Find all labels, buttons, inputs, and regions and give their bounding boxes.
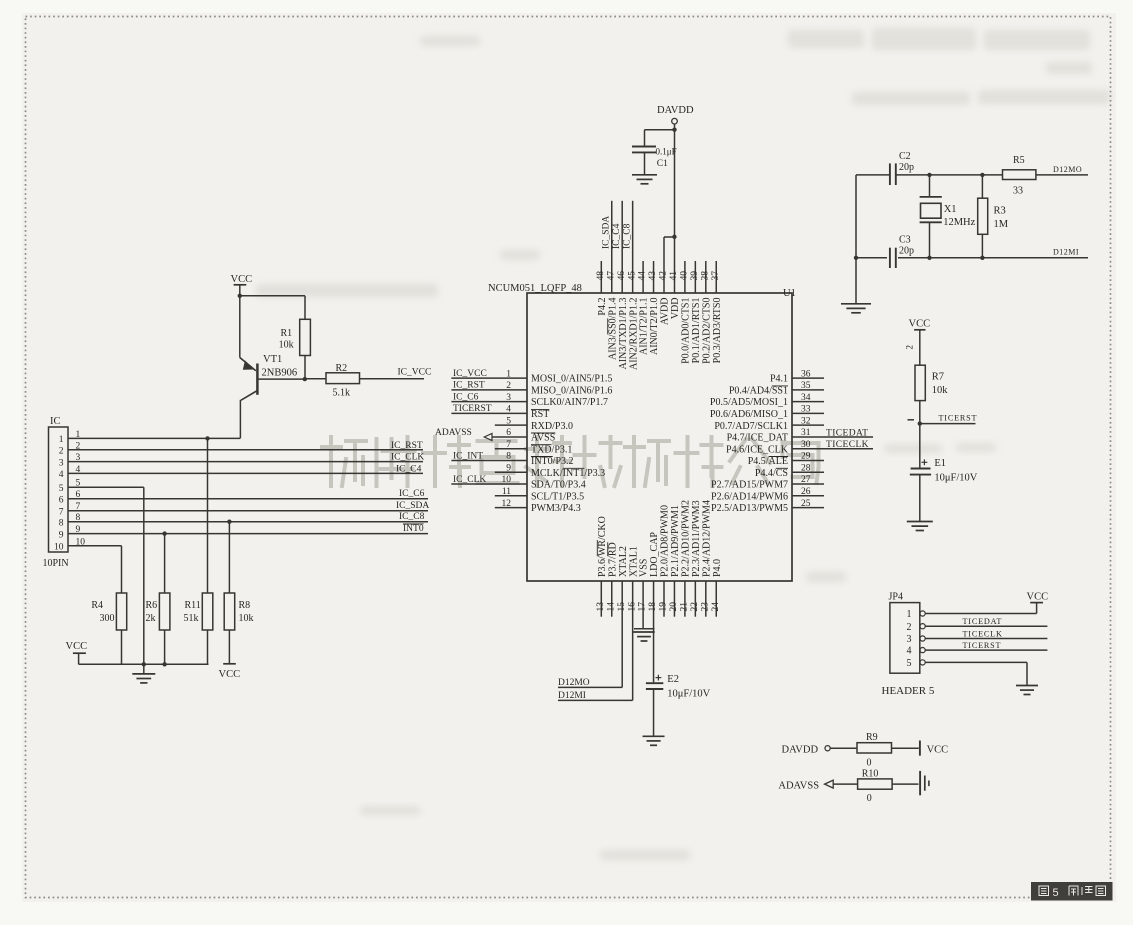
svg-text:TICECLK: TICECLK bbox=[826, 440, 869, 450]
svg-text:E1: E1 bbox=[934, 458, 946, 469]
power flag VCC (R4) bbox=[78, 653, 80, 664]
svg-text:AIN2/RXD1/P1.2: AIN2/RXD1/P1.2 bbox=[628, 298, 639, 371]
svg-text:10k: 10k bbox=[932, 385, 949, 396]
svg-text:P2.7/AD15/PWM7: P2.7/AD15/PWM7 bbox=[711, 480, 788, 491]
svg-text:51k: 51k bbox=[184, 613, 199, 624]
svg-text:AIN3/SS0/P1.4: AIN3/SS0/P1.4 bbox=[607, 298, 618, 361]
svg-text:29: 29 bbox=[801, 452, 811, 462]
svg-text:ADAVSS: ADAVSS bbox=[435, 428, 472, 438]
ground (R10, sideways) bbox=[919, 771, 921, 795]
svg-text:ADAVSS: ADAVSS bbox=[778, 781, 819, 792]
svg-text:5: 5 bbox=[59, 484, 64, 494]
svg-text:VCC: VCC bbox=[927, 745, 949, 756]
svg-text:18: 18 bbox=[648, 602, 658, 612]
svg-text:7: 7 bbox=[506, 440, 511, 450]
wire R4 to rail bbox=[121, 630, 123, 664]
svg-text:3: 3 bbox=[59, 458, 64, 468]
svg-text:RXD/P3.0: RXD/P3.0 bbox=[531, 421, 573, 432]
IC U1 pin 17 bbox=[642, 581, 644, 629]
svg-text:X1: X1 bbox=[944, 204, 957, 215]
svg-text:INT0/P3.2: INT0/P3.2 bbox=[531, 456, 574, 467]
IC U1 pin 7 (TXD) bbox=[495, 448, 527, 450]
svg-text:11: 11 bbox=[502, 487, 511, 497]
capacitor E2 bbox=[656, 677, 662, 679]
resistor R9 bbox=[857, 743, 892, 753]
resistor R7 bbox=[915, 365, 925, 400]
svg-text:P4.2: P4.2 bbox=[597, 298, 608, 316]
svg-text:20p: 20p bbox=[899, 246, 914, 257]
svg-text:IC_VCC: IC_VCC bbox=[453, 369, 487, 379]
svg-text:33: 33 bbox=[1013, 186, 1023, 197]
IC U1 pin 5 (RXD) bbox=[495, 424, 527, 426]
IC U1 pin 19 bbox=[663, 581, 665, 617]
wire connector pin 5 to ground rail bbox=[68, 486, 144, 488]
svg-text:IC_C8: IC_C8 bbox=[622, 223, 632, 249]
svg-text:9: 9 bbox=[506, 463, 511, 473]
svg-text:6: 6 bbox=[59, 496, 64, 506]
svg-text:TICERST: TICERST bbox=[963, 641, 1002, 650]
wire net IC_CLK (connector pin 3) bbox=[68, 461, 423, 463]
svg-text:U1: U1 bbox=[783, 288, 796, 299]
svg-text:VCC: VCC bbox=[219, 669, 241, 680]
connector IC (10PIN) bbox=[49, 427, 69, 552]
wire ADAVSS to R10 bbox=[833, 783, 857, 785]
svg-text:NCUM051_LQFP_48: NCUM051_LQFP_48 bbox=[488, 283, 582, 294]
wire node to E1 bbox=[919, 424, 921, 469]
svg-text:TICERST: TICERST bbox=[939, 414, 978, 423]
svg-text:44: 44 bbox=[638, 271, 648, 281]
svg-text:R1: R1 bbox=[281, 328, 293, 339]
svg-text:0: 0 bbox=[867, 793, 872, 804]
svg-text:R6: R6 bbox=[146, 600, 158, 611]
IC U1 pin 45 bbox=[632, 201, 634, 293]
svg-text:VCC: VCC bbox=[1027, 592, 1049, 603]
svg-text:0: 0 bbox=[867, 758, 872, 769]
svg-text:TICEDAT: TICEDAT bbox=[826, 428, 868, 438]
svg-text:10μF/10V: 10μF/10V bbox=[667, 689, 710, 700]
svg-text:9: 9 bbox=[59, 530, 64, 540]
svg-text:2: 2 bbox=[905, 345, 915, 350]
svg-text:15: 15 bbox=[617, 602, 627, 612]
svg-text:AIN3/TXD1/P1.3: AIN3/TXD1/P1.3 bbox=[618, 298, 629, 370]
svg-text:23: 23 bbox=[700, 602, 710, 612]
svg-text:17: 17 bbox=[638, 602, 648, 612]
svg-text:12: 12 bbox=[502, 499, 512, 509]
svg-text:38: 38 bbox=[700, 271, 710, 281]
IC U1 pin 20 bbox=[673, 581, 675, 617]
IC U1 pin 40 bbox=[684, 261, 686, 293]
svg-text:P4.4/CS: P4.4/CS bbox=[755, 468, 788, 479]
resistor R3 bbox=[981, 175, 983, 198]
svg-text:33: 33 bbox=[801, 405, 811, 415]
svg-text:R9: R9 bbox=[866, 732, 878, 743]
svg-text:P2.3/AD11/PWM3: P2.3/AD11/PWM3 bbox=[691, 500, 702, 577]
svg-text:P4.1: P4.1 bbox=[770, 374, 788, 385]
svg-text:16: 16 bbox=[627, 602, 637, 612]
svg-text:LDO_CAP: LDO_CAP bbox=[649, 532, 660, 577]
svg-text:4: 4 bbox=[506, 405, 511, 415]
svg-text:P3.6/WR/CKO: P3.6/WR/CKO bbox=[597, 516, 608, 577]
svg-text:37: 37 bbox=[711, 271, 721, 281]
IC U1 pin 2 (MISO_0) bbox=[451, 389, 527, 391]
svg-text:4: 4 bbox=[59, 470, 64, 480]
svg-text:46: 46 bbox=[617, 271, 627, 281]
svg-text:IC_C8: IC_C8 bbox=[399, 512, 425, 522]
ground (E1) bbox=[907, 521, 933, 523]
svg-text:13: 13 bbox=[596, 602, 606, 612]
wire DAVDD to node bbox=[674, 124, 676, 130]
svg-text:IC_SDA: IC_SDA bbox=[601, 216, 611, 249]
svg-text:P2.6/AD14/PWM6: P2.6/AD14/PWM6 bbox=[711, 491, 788, 502]
svg-text:34: 34 bbox=[801, 393, 811, 403]
power flag VCC (R8) bbox=[223, 663, 236, 665]
IC U1 pin 8 (INT0) bbox=[451, 459, 527, 461]
svg-text:VSS: VSS bbox=[639, 559, 650, 577]
svg-text:43: 43 bbox=[648, 271, 658, 281]
resistor R11 bbox=[207, 438, 209, 593]
svg-text:IC_VCC: IC_VCC bbox=[398, 368, 432, 378]
crystal X1 bbox=[929, 175, 931, 197]
svg-text:10PIN: 10PIN bbox=[43, 558, 69, 569]
resistor R1 bbox=[300, 319, 311, 355]
svg-text:47: 47 bbox=[606, 271, 616, 281]
IC U1 pin 11 (SCL) bbox=[495, 495, 527, 497]
svg-text:P0.2/AD2/CTS0: P0.2/AD2/CTS0 bbox=[701, 298, 712, 364]
svg-text:R7: R7 bbox=[932, 372, 944, 383]
power flag VCC (JP4) bbox=[1030, 602, 1043, 604]
svg-text:6: 6 bbox=[506, 428, 511, 438]
wire bottom (crystal) to D12MI bbox=[856, 257, 1088, 259]
IC U1 pin 1 (MOSI_0) bbox=[451, 377, 527, 379]
IC U1 pin 37 bbox=[715, 261, 717, 293]
wire net IC_RST (connector pin 2) bbox=[68, 449, 423, 451]
wire C2 to R5 bbox=[896, 174, 1003, 176]
svg-text:41: 41 bbox=[669, 271, 679, 281]
svg-text:AIN0/T2/P1.0: AIN0/T2/P1.0 bbox=[649, 298, 660, 356]
IC U1 pin 35 bbox=[792, 389, 824, 391]
svg-text:P2.0/AD8/PWM0: P2.0/AD8/PWM0 bbox=[660, 505, 671, 577]
wire R1 to base node bbox=[304, 356, 306, 380]
IC U1 pin 30 bbox=[792, 448, 873, 450]
svg-text:TICECLK: TICECLK bbox=[963, 630, 1003, 639]
wire net TICECLK (JP4 pin 3) bbox=[925, 638, 1047, 640]
svg-text:AVSS: AVSS bbox=[531, 433, 555, 444]
wire E2 to ground bbox=[653, 689, 655, 736]
svg-text:SCL/T1/P3.5: SCL/T1/P3.5 bbox=[531, 491, 584, 502]
IC U1 NCUM051_LQFP_48 bbox=[527, 293, 792, 581]
svg-text:XTAL1: XTAL1 bbox=[628, 546, 639, 577]
svg-text:8: 8 bbox=[506, 452, 511, 462]
svg-text:3: 3 bbox=[907, 634, 912, 645]
svg-text:P3.7/RD: P3.7/RD bbox=[607, 542, 618, 577]
resistor R5 bbox=[1003, 170, 1036, 180]
svg-text:SDA/T0/P3.4: SDA/T0/P3.4 bbox=[531, 480, 586, 491]
svg-text:TICEDAT: TICEDAT bbox=[963, 617, 1003, 626]
wire C1 to ground bbox=[644, 152, 646, 174]
svg-text:P0.0/AD0/CTS1: P0.0/AD0/CTS1 bbox=[681, 298, 692, 364]
ground (crystal rail) bbox=[841, 303, 871, 305]
svg-text:IC_CLK: IC_CLK bbox=[391, 453, 424, 463]
pin number 2 (R7) bbox=[905, 345, 915, 350]
svg-text:45: 45 bbox=[627, 271, 637, 281]
svg-text:AVDD: AVDD bbox=[660, 298, 671, 326]
svg-text:P0.7/AD7/SCLK1: P0.7/AD7/SCLK1 bbox=[714, 421, 788, 432]
capacitor C1 bbox=[632, 146, 656, 148]
svg-text:19: 19 bbox=[659, 602, 669, 612]
svg-text:14: 14 bbox=[606, 602, 616, 612]
IC U1 pin 16 bbox=[632, 581, 634, 700]
IC U1 pin 6 (AVSS) bbox=[492, 436, 527, 438]
wire JP4 pin 5 to ground bbox=[925, 661, 1027, 663]
svg-text:R5: R5 bbox=[1013, 155, 1025, 166]
wire connector pin 10 to R4 bbox=[68, 545, 122, 547]
wire E1 to ground bbox=[919, 475, 921, 522]
svg-text:P2.4/AD12/PWM4: P2.4/AD12/PWM4 bbox=[701, 500, 712, 577]
IC U1 pin 38 bbox=[705, 261, 707, 293]
svg-text:26: 26 bbox=[801, 487, 811, 497]
ground (C1) bbox=[632, 174, 657, 176]
svg-text:5.1k: 5.1k bbox=[333, 388, 351, 399]
IC U1 pin 36 bbox=[792, 377, 824, 379]
svg-text:MOSI_0/AIN5/P1.5: MOSI_0/AIN5/P1.5 bbox=[531, 374, 612, 385]
transistor VT1 bbox=[239, 296, 241, 358]
svg-text:3: 3 bbox=[506, 393, 511, 403]
IC U1 pin 26 bbox=[792, 495, 824, 497]
svg-text:22: 22 bbox=[690, 602, 700, 612]
wire R5 to D12MO bbox=[1036, 174, 1088, 176]
IC U1 pin 18 bbox=[653, 581, 655, 682]
IC U1 pin 23 bbox=[705, 581, 707, 617]
wire R2 to IC_VCC bbox=[360, 378, 425, 380]
ground rail (bottom left) bbox=[79, 663, 209, 665]
svg-text:P2.5/AD13/PWM5: P2.5/AD13/PWM5 bbox=[711, 503, 788, 514]
svg-text:IC_RST: IC_RST bbox=[453, 381, 485, 391]
svg-text:C1: C1 bbox=[657, 159, 668, 169]
svg-text:R4: R4 bbox=[91, 600, 103, 611]
svg-text:8: 8 bbox=[59, 519, 64, 529]
IC U1 pin 42 bbox=[663, 237, 665, 293]
svg-text:4: 4 bbox=[907, 646, 912, 657]
svg-text:1M: 1M bbox=[994, 219, 1009, 230]
svg-text:24: 24 bbox=[711, 602, 721, 612]
svg-text:2: 2 bbox=[506, 381, 511, 391]
svg-text:P2.1/AD9/PWM1: P2.1/AD9/PWM1 bbox=[670, 505, 681, 577]
svg-text:300: 300 bbox=[100, 613, 115, 624]
svg-text:PWM3/P4.3: PWM3/P4.3 bbox=[531, 503, 581, 514]
svg-text:2NB906: 2NB906 bbox=[262, 368, 298, 379]
capacitor C3 bbox=[887, 247, 898, 268]
power flag VCC (R9) bbox=[919, 741, 921, 756]
wire R9 to VCC bbox=[892, 747, 919, 749]
svg-text:MCLK/INT1/P3.3: MCLK/INT1/P3.3 bbox=[531, 468, 605, 479]
wire net IC_SDA (connector pin 7) bbox=[68, 510, 428, 512]
svg-text:32: 32 bbox=[801, 416, 811, 426]
IC U1 pin 33 bbox=[792, 412, 824, 414]
svg-text:1: 1 bbox=[506, 369, 511, 379]
svg-text:INT0: INT0 bbox=[403, 524, 424, 534]
resistor R10 bbox=[858, 779, 893, 789]
net label IC_C4 (pin 46) bbox=[612, 223, 622, 249]
IC U1 pin 12 (PWM3) bbox=[495, 507, 527, 509]
wire net ADAVSS (connector pin 1) bbox=[68, 437, 240, 439]
ground (E2) bbox=[643, 735, 665, 737]
wire net IC_C4 (connector pin 4) bbox=[68, 472, 423, 474]
svg-text:IC_C6: IC_C6 bbox=[399, 489, 425, 499]
svg-text:21: 21 bbox=[680, 602, 690, 612]
svg-text:1: 1 bbox=[59, 435, 64, 445]
svg-text:MISO_0/AIN6/P1.6: MISO_0/AIN6/P1.6 bbox=[531, 385, 612, 396]
wire R7 to node TICERST bbox=[919, 401, 921, 424]
svg-text:P0.3/AD3/RTS0: P0.3/AD3/RTS0 bbox=[712, 298, 723, 364]
wire node to C1 bbox=[645, 129, 675, 131]
net label IC_SDA (pin 47) bbox=[601, 216, 611, 249]
ground (bottom left) bbox=[143, 664, 145, 673]
svg-text:P4.6/ICE_CLK: P4.6/ICE_CLK bbox=[726, 444, 789, 455]
svg-text:R8: R8 bbox=[239, 600, 251, 611]
wire rail to C2 bbox=[856, 174, 889, 176]
resistor R6 bbox=[164, 534, 166, 593]
IC U1 pin 27 bbox=[792, 483, 824, 485]
wire net TICEDAT (JP4 pin 2) bbox=[925, 625, 1047, 627]
svg-text:10: 10 bbox=[502, 475, 512, 485]
svg-text:10k: 10k bbox=[239, 613, 254, 624]
IC U1 pin 31 bbox=[792, 436, 873, 438]
svg-text:IC_C4: IC_C4 bbox=[612, 223, 622, 249]
svg-text:35: 35 bbox=[801, 381, 811, 391]
svg-text:48: 48 bbox=[596, 271, 606, 281]
svg-text:R10: R10 bbox=[862, 769, 879, 780]
svg-text:C2: C2 bbox=[899, 151, 911, 162]
svg-text:7: 7 bbox=[59, 508, 64, 518]
svg-text:2: 2 bbox=[59, 447, 64, 457]
svg-text:P0.4/AD4/SS1: P0.4/AD4/SS1 bbox=[729, 385, 788, 396]
svg-text:P0.5/AD5/MOSI_1: P0.5/AD5/MOSI_1 bbox=[710, 397, 788, 408]
IC U1 pin 43 bbox=[653, 261, 655, 293]
wire VCC to R1 bbox=[240, 295, 305, 297]
wire net IC_C6 (connector pin 6) bbox=[68, 498, 428, 500]
svg-text:20: 20 bbox=[669, 602, 679, 612]
svg-text:1: 1 bbox=[907, 609, 912, 620]
IC U1 pin 28 bbox=[792, 471, 824, 473]
net label IC_C8 (pin 45) bbox=[622, 223, 632, 249]
ground (JP4) bbox=[1016, 685, 1038, 687]
svg-text:20p: 20p bbox=[899, 162, 914, 173]
IC U1 pin 9 (MCLK) bbox=[495, 471, 527, 473]
svg-text:XTAL2: XTAL2 bbox=[618, 546, 629, 577]
IC U1 pin 39 bbox=[694, 261, 696, 293]
svg-text:28: 28 bbox=[801, 463, 811, 473]
svg-text:IC_INT: IC_INT bbox=[453, 451, 483, 461]
svg-text:VCC: VCC bbox=[66, 641, 88, 652]
svg-text:10k: 10k bbox=[279, 340, 294, 351]
svg-text:TXD/P3.1: TXD/P3.1 bbox=[531, 444, 572, 455]
svg-text:R2: R2 bbox=[336, 363, 348, 374]
svg-text:D12MO: D12MO bbox=[1053, 165, 1082, 174]
svg-text:IC_C4: IC_C4 bbox=[396, 464, 422, 474]
svg-text:DAVDD: DAVDD bbox=[657, 105, 694, 116]
svg-text:IC: IC bbox=[50, 416, 61, 427]
svg-text:IC_SDA: IC_SDA bbox=[396, 501, 429, 511]
svg-text:P0.1/AD1/RTS1: P0.1/AD1/RTS1 bbox=[691, 298, 702, 364]
svg-text:P4.0: P4.0 bbox=[712, 559, 723, 577]
wire net INT0 (connector pin 9) bbox=[68, 533, 428, 535]
svg-text:D12MI: D12MI bbox=[558, 691, 586, 701]
svg-text:36: 36 bbox=[801, 369, 811, 379]
resistor R4 bbox=[116, 593, 126, 630]
svg-text:39: 39 bbox=[690, 271, 700, 281]
capacitor C2 bbox=[889, 163, 891, 185]
svg-text:31: 31 bbox=[801, 428, 811, 438]
resistor R8 bbox=[228, 522, 230, 593]
wire JP4 pin 1 to VCC bbox=[925, 613, 1036, 615]
svg-text:P0.6/AD6/MISO_1: P0.6/AD6/MISO_1 bbox=[710, 409, 788, 420]
svg-text:D12MI: D12MI bbox=[1053, 248, 1079, 257]
resistor R2 bbox=[305, 378, 326, 380]
ground (VSS) bbox=[633, 631, 655, 633]
svg-text:30: 30 bbox=[801, 440, 811, 450]
svg-text:HEADER 5: HEADER 5 bbox=[882, 685, 935, 697]
svg-text:R3: R3 bbox=[994, 206, 1006, 217]
IC U1 pin 34 bbox=[792, 401, 824, 403]
svg-text:P2.2/AD10/PWM2: P2.2/AD10/PWM2 bbox=[681, 500, 692, 577]
svg-text:2k: 2k bbox=[146, 613, 156, 624]
watermark (decorative) bbox=[322, 437, 819, 486]
svg-text:TICERST: TICERST bbox=[453, 404, 492, 414]
IC U1 pin 13 bbox=[600, 581, 602, 617]
wire pin 42 jog to DAVDD node bbox=[664, 236, 674, 238]
svg-text:IC_RST: IC_RST bbox=[391, 441, 423, 451]
IC U1 pin 14 bbox=[611, 581, 613, 617]
IC U1 pin 22 bbox=[694, 581, 696, 617]
IC U1 pin 32 bbox=[792, 424, 824, 426]
IC U1 pin 4 (RST) bbox=[451, 412, 527, 414]
wire DAVDD to R9 bbox=[830, 747, 857, 749]
wire DAVDD to pin 41 bbox=[674, 130, 676, 293]
svg-text:VDD: VDD bbox=[670, 298, 681, 320]
IC U1 pin 29 bbox=[792, 459, 824, 461]
IC U1 pin 10 (SDA) bbox=[451, 483, 527, 485]
svg-text:RST: RST bbox=[531, 409, 549, 420]
wire left rail (crystal) bbox=[855, 175, 857, 304]
svg-text:E2: E2 bbox=[667, 674, 679, 685]
svg-text:AIN1/T2/P1.1: AIN1/T2/P1.1 bbox=[639, 298, 650, 356]
svg-text:DAVDD: DAVDD bbox=[782, 745, 819, 756]
svg-text:VT1: VT1 bbox=[263, 354, 282, 365]
svg-text:IC_CLK: IC_CLK bbox=[453, 475, 486, 485]
svg-text:5: 5 bbox=[506, 416, 511, 426]
IC U1 pin 15 bbox=[621, 581, 623, 687]
svg-text:JP4: JP4 bbox=[889, 592, 903, 603]
svg-text:P4.5/ALE: P4.5/ALE bbox=[748, 456, 788, 467]
caption box (figure label) bbox=[1031, 882, 1113, 901]
svg-text:40: 40 bbox=[680, 271, 690, 281]
svg-text:2: 2 bbox=[907, 622, 912, 633]
IC U1 pin 24 bbox=[715, 581, 717, 617]
svg-text:C3: C3 bbox=[899, 235, 911, 246]
svg-text:10: 10 bbox=[54, 543, 64, 553]
wire net IC_C8 (connector pin 8) bbox=[68, 521, 428, 523]
svg-text:SCLK0/AIN7/P1.7: SCLK0/AIN7/P1.7 bbox=[531, 397, 608, 408]
svg-text:27: 27 bbox=[801, 475, 811, 485]
IC U1 pin 46 bbox=[621, 201, 623, 293]
IC U1 pin 44 bbox=[642, 261, 644, 293]
svg-text:IC_C6: IC_C6 bbox=[453, 392, 479, 402]
IC U1 pin 48 bbox=[600, 261, 602, 293]
svg-text:VCC: VCC bbox=[909, 319, 931, 330]
svg-text:12MHz: 12MHz bbox=[943, 217, 975, 228]
svg-text:5: 5 bbox=[907, 658, 912, 669]
svg-text:25: 25 bbox=[801, 499, 811, 509]
